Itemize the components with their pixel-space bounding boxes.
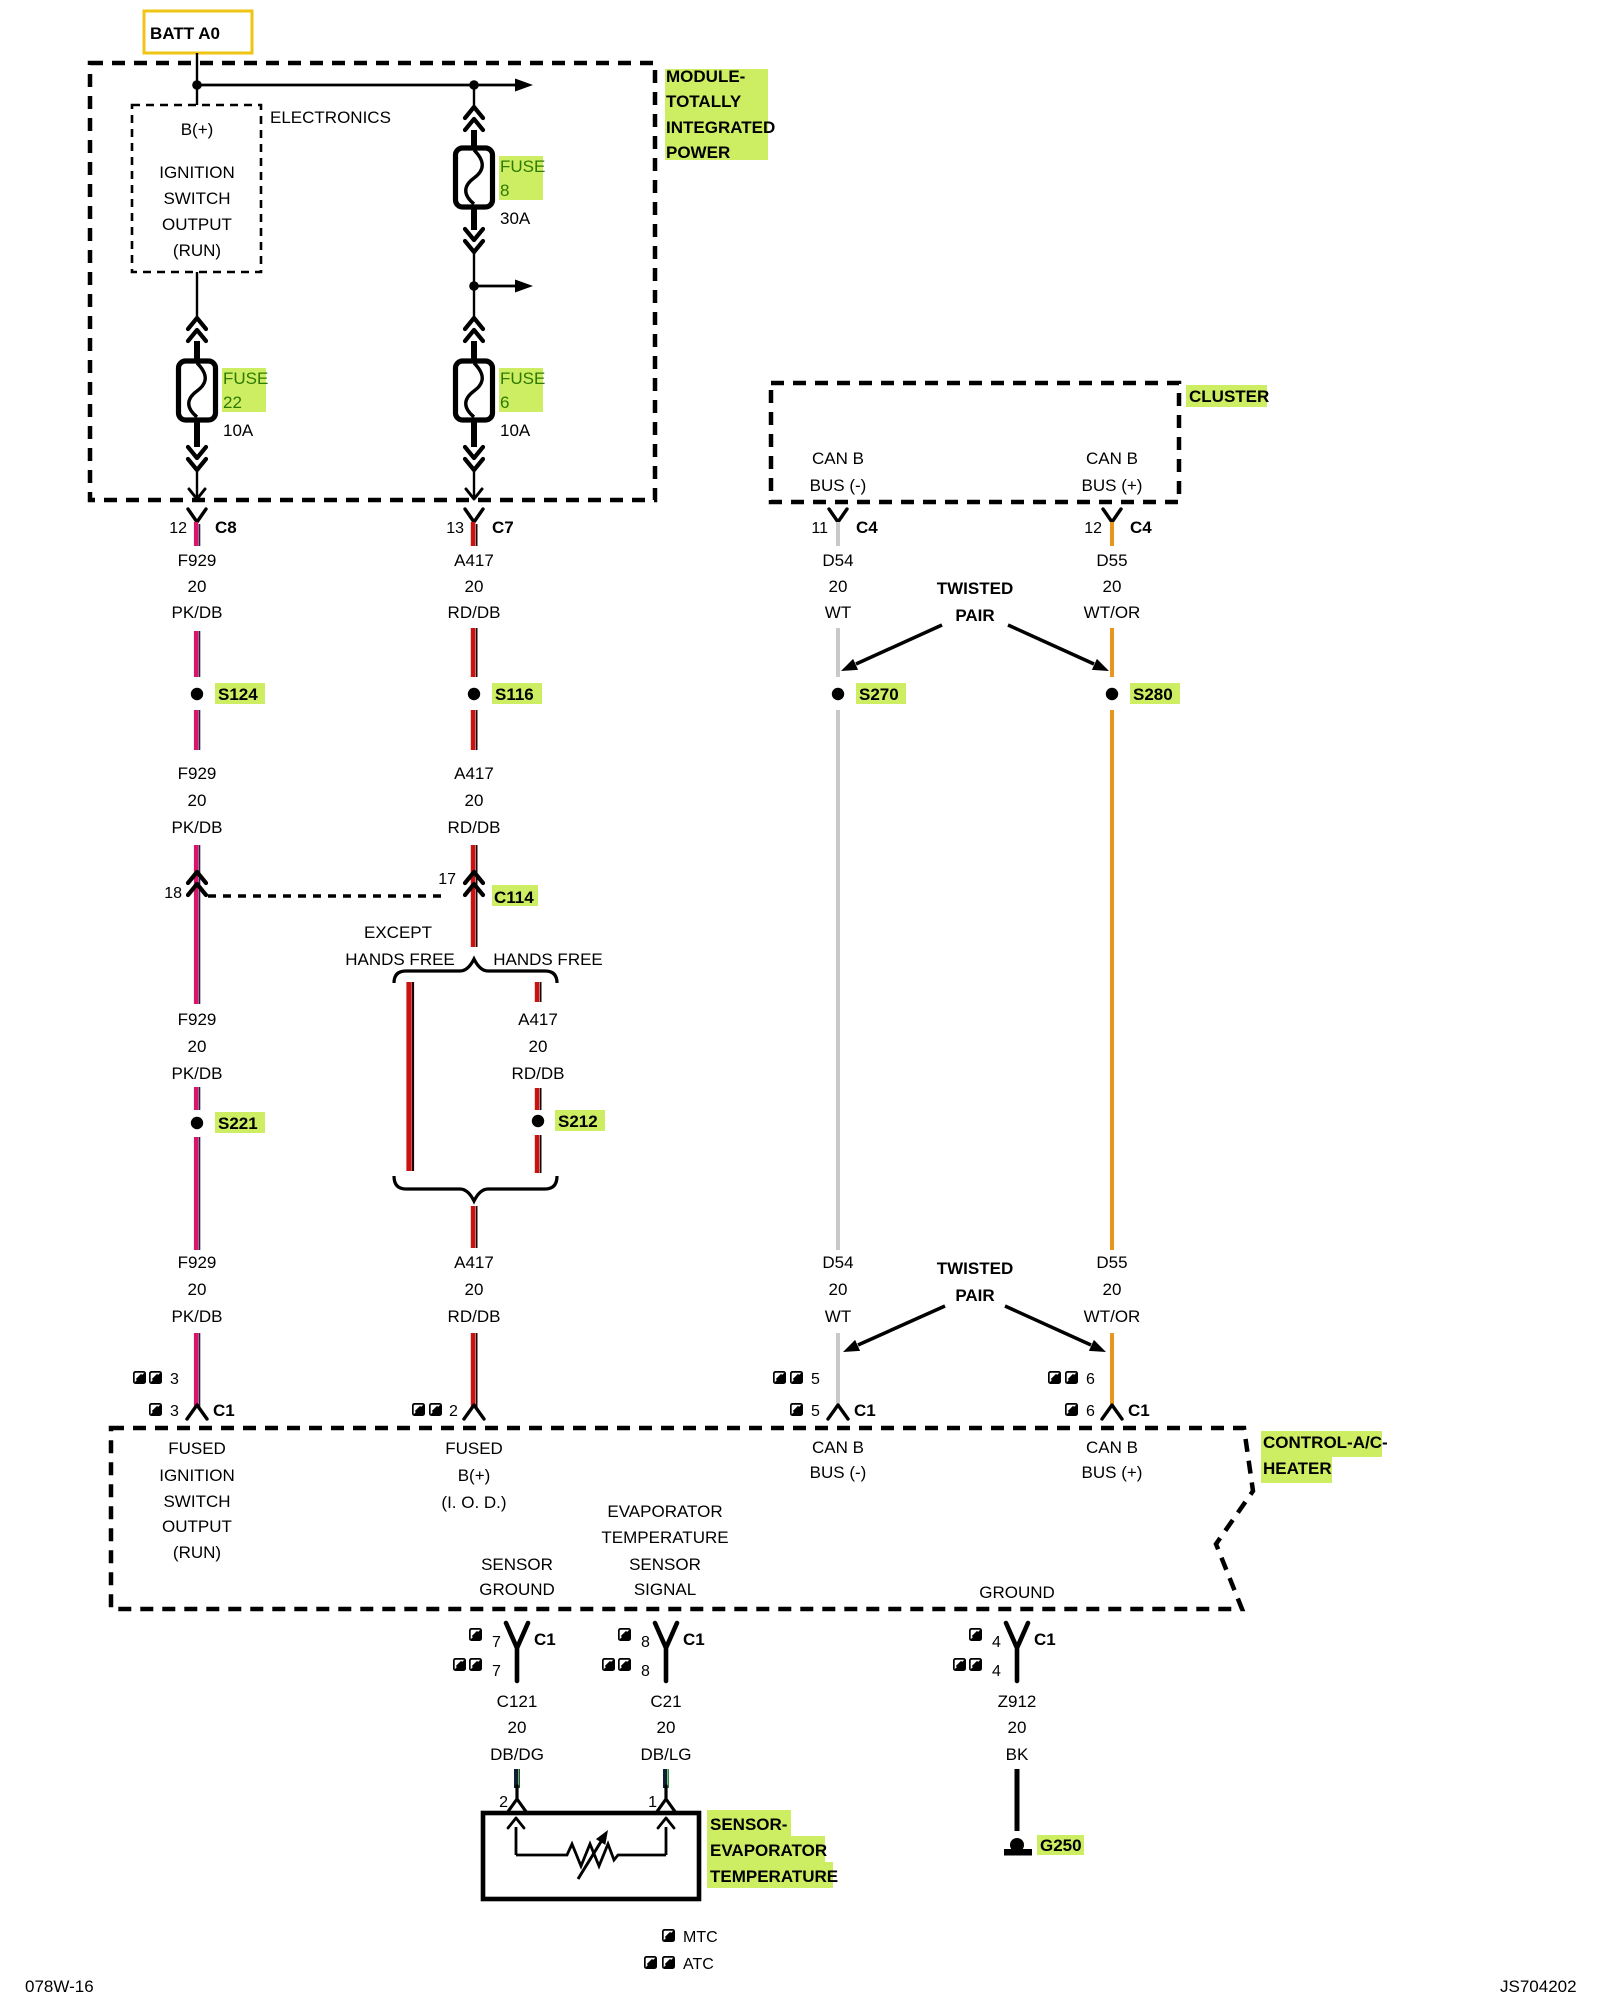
wire RD/DB to C1: [473, 1333, 477, 1407]
svg-text:4: 4: [992, 1634, 1001, 1651]
svg-text:6: 6: [500, 393, 509, 412]
svg-text:PK/DB: PK/DB: [171, 603, 222, 622]
connector C1 pin 2: [412, 1403, 425, 1416]
svg-text:INTEGRATED: INTEGRATED: [666, 118, 775, 137]
svg-text:CLUSTER: CLUSTER: [1189, 387, 1269, 406]
svg-text:DB/LG: DB/LG: [640, 1745, 691, 1764]
svg-text:EVAPORATOR: EVAPORATOR: [710, 1841, 827, 1860]
module-totally integrated power dashed box: [90, 63, 655, 500]
node junction above fuse 8: [469, 80, 479, 90]
svg-text:2: 2: [449, 1403, 458, 1420]
cluster dashed box: [771, 383, 1179, 502]
twisted pair arrow right second: [1005, 1306, 1091, 1345]
svg-text:F929: F929: [178, 764, 217, 783]
svg-text:078W-16: 078W-16: [25, 1977, 94, 1996]
svg-text:ELECTRONICS: ELECTRONICS: [270, 108, 391, 127]
svg-text:S116: S116: [495, 685, 534, 704]
svg-text:EXCEPT: EXCEPT: [364, 923, 432, 942]
svg-text:20: 20: [188, 791, 207, 810]
connector C1 pin 7 below control box: [469, 1628, 482, 1641]
svg-text:S270: S270: [859, 685, 899, 704]
svg-text:GROUND: GROUND: [979, 1583, 1055, 1602]
svg-text:S124: S124: [218, 685, 258, 704]
wire WT/OR segment: [1110, 628, 1114, 677]
svg-text:B(+): B(+): [181, 120, 214, 139]
svg-text:DB/DG: DB/DG: [490, 1745, 544, 1764]
svg-text:C7: C7: [492, 518, 514, 537]
wire WT to C1: [836, 1333, 840, 1407]
twisted pair arrow left second: [858, 1306, 945, 1345]
battery feed label box BATT A0: [144, 11, 252, 53]
svg-text:HANDS FREE: HANDS FREE: [345, 950, 455, 969]
wire PK/DB to C1: [196, 1333, 199, 1407]
connector C1 pin 4 below control box: [969, 1628, 982, 1641]
svg-text:CAN B: CAN B: [812, 449, 864, 468]
svg-text:12: 12: [169, 520, 187, 537]
svg-text:C1: C1: [534, 1630, 556, 1649]
wire WT long segment: [836, 710, 840, 1250]
svg-text:7: 7: [492, 1663, 501, 1680]
svg-text:1: 1: [648, 1794, 657, 1811]
svg-text:C121: C121: [497, 1692, 538, 1711]
svg-text:6: 6: [1086, 1403, 1095, 1420]
svg-text:PK/DB: PK/DB: [171, 1064, 222, 1083]
svg-text:18: 18: [164, 885, 182, 902]
svg-text:SIGNAL: SIGNAL: [634, 1580, 696, 1599]
label SENSOR-EVAPORATOR TEMPERATURE: [707, 1810, 791, 1836]
svg-text:3: 3: [170, 1403, 179, 1420]
svg-text:10A: 10A: [223, 421, 254, 440]
svg-text:D55: D55: [1096, 1253, 1127, 1272]
svg-text:PK/DB: PK/DB: [171, 1307, 222, 1326]
svg-text:CAN B: CAN B: [1086, 449, 1138, 468]
svg-text:7: 7: [492, 1634, 501, 1651]
svg-text:A417: A417: [454, 551, 494, 570]
wire WT segment: [836, 628, 840, 677]
svg-text:MTC: MTC: [683, 1929, 718, 1946]
svg-text:FUSE: FUSE: [500, 157, 545, 176]
svg-text:30A: 30A: [500, 209, 531, 228]
svg-text:(RUN): (RUN): [173, 1543, 221, 1562]
svg-text:IGNITION: IGNITION: [159, 163, 235, 182]
svg-text:S221: S221: [218, 1114, 258, 1133]
svg-text:TWISTED: TWISTED: [937, 1259, 1014, 1278]
svg-text:WT/OR: WT/OR: [1084, 1307, 1141, 1326]
svg-text:20: 20: [188, 1037, 207, 1056]
wire DB/LG segment: [665, 1769, 668, 1788]
splice S280: [1106, 688, 1118, 700]
svg-text:20: 20: [465, 791, 484, 810]
svg-text:C1: C1: [1128, 1401, 1150, 1420]
svg-text:C4: C4: [856, 518, 878, 537]
wire PK/DB above C114: [196, 845, 199, 1004]
svg-text:C1: C1: [213, 1401, 235, 1420]
wire WT/OR to C1: [1110, 1333, 1114, 1407]
svg-text:20: 20: [465, 577, 484, 596]
svg-text:(I. O. D.): (I. O. D.): [441, 1493, 506, 1512]
svg-text:10A: 10A: [500, 421, 531, 440]
svg-text:Z912: Z912: [998, 1692, 1037, 1711]
splice S116: [468, 688, 480, 700]
svg-text:(RUN): (RUN): [173, 241, 221, 260]
svg-text:F929: F929: [178, 551, 217, 570]
svg-text:F929: F929: [178, 1253, 217, 1272]
wire DB/DG segment: [516, 1769, 519, 1788]
svg-text:TOTALLY: TOTALLY: [666, 92, 742, 111]
svg-text:RD/DB: RD/DB: [448, 818, 501, 837]
svg-text:20: 20: [1008, 1718, 1027, 1737]
svg-text:20: 20: [829, 577, 848, 596]
svg-text:POWER: POWER: [666, 143, 730, 162]
option legend MTC: [662, 1929, 675, 1942]
svg-text:TWISTED: TWISTED: [937, 579, 1014, 598]
svg-text:TEMPERATURE: TEMPERATURE: [601, 1528, 728, 1547]
wire RD/DB hands-free segment: [537, 1135, 541, 1173]
wire WT/OR stub: [1110, 522, 1114, 546]
svg-text:SENSOR: SENSOR: [481, 1555, 553, 1574]
wire RD/DB segment: [473, 710, 477, 750]
svg-text:2: 2: [499, 1794, 508, 1811]
splice S212: [532, 1115, 544, 1127]
thermistor symbol: [516, 1844, 666, 1866]
svg-text:20: 20: [657, 1718, 676, 1737]
svg-text:C4: C4: [1130, 518, 1152, 537]
wire PK/DB segment: [196, 710, 199, 750]
ground G250: [1010, 1838, 1024, 1852]
svg-text:8: 8: [641, 1663, 650, 1680]
svg-text:FUSE: FUSE: [223, 369, 268, 388]
svg-text:BK: BK: [1006, 1745, 1029, 1764]
svg-text:20: 20: [1103, 577, 1122, 596]
svg-text:TEMPERATURE: TEMPERATURE: [710, 1867, 838, 1886]
splice S221: [191, 1117, 203, 1129]
svg-text:6: 6: [1086, 1371, 1095, 1388]
wire from BATT A0 down: [196, 53, 198, 85]
svg-text:A417: A417: [454, 764, 494, 783]
svg-text:8: 8: [641, 1634, 650, 1651]
svg-text:20: 20: [465, 1280, 484, 1299]
svg-text:BUS (-): BUS (-): [810, 476, 867, 495]
connector C1 pin 8 below control box: [618, 1628, 631, 1641]
svg-text:SENSOR: SENSOR: [629, 1555, 701, 1574]
node junction at top left: [192, 80, 202, 90]
svg-text:MODULE-: MODULE-: [666, 67, 745, 86]
svg-text:3: 3: [170, 1371, 179, 1388]
wire RD/DB below merge: [473, 1206, 477, 1248]
svg-text:A417: A417: [454, 1253, 494, 1272]
svg-text:20: 20: [829, 1280, 848, 1299]
svg-text:4: 4: [992, 1663, 1001, 1680]
svg-text:RD/DB: RD/DB: [448, 603, 501, 622]
svg-text:HEATER: HEATER: [1263, 1459, 1332, 1478]
svg-text:C1: C1: [854, 1401, 876, 1420]
svg-text:B(+): B(+): [458, 1466, 491, 1485]
svg-text:5: 5: [811, 1403, 820, 1420]
svg-text:8: 8: [500, 181, 509, 200]
svg-text:GROUND: GROUND: [479, 1580, 555, 1599]
ignition switch output dashed box: [132, 105, 261, 272]
label CONTROL-A/C-HEATER: [1261, 1431, 1382, 1457]
svg-text:A417: A417: [518, 1010, 558, 1029]
fuse 6: [456, 361, 493, 420]
twisted pair arrow right: [1008, 625, 1094, 664]
svg-text:BUS (+): BUS (+): [1082, 1463, 1143, 1482]
splice S124: [191, 688, 203, 700]
wire from ignition box to fuse 22: [196, 272, 198, 320]
sensor-evaporator temperature box: [483, 1813, 699, 1899]
control-a/c-heater dashed box: [111, 1428, 1253, 1609]
svg-text:20: 20: [188, 577, 207, 596]
wire PK/DB segment: [196, 1137, 199, 1250]
svg-text:ATC: ATC: [683, 1956, 714, 1973]
svg-text:FUSED: FUSED: [445, 1439, 503, 1458]
wire from junction to fuse 8: [473, 85, 475, 109]
svg-text:C21: C21: [650, 1692, 681, 1711]
svg-text:HANDS FREE: HANDS FREE: [493, 950, 603, 969]
svg-text:SWITCH: SWITCH: [163, 189, 230, 208]
svg-text:BUS (+): BUS (+): [1082, 476, 1143, 495]
wire RD/DB hands-free branch segment: [537, 982, 541, 1002]
brace split top: [394, 959, 557, 983]
fuse 8: [456, 148, 493, 207]
wire RD/DB segment: [473, 628, 477, 677]
wire RD/DB hands-free segment: [537, 1088, 541, 1110]
connector C114 dashed tie line: [208, 894, 442, 897]
svg-text:C1: C1: [1034, 1630, 1056, 1649]
node junction below fuse 8: [469, 281, 479, 291]
svg-text:PK/DB: PK/DB: [171, 818, 222, 837]
connector C1 pin 6 options: [1048, 1371, 1061, 1384]
svg-text:OUTPUT: OUTPUT: [162, 1517, 232, 1536]
connector C1 pin 5 options: [773, 1371, 786, 1384]
svg-text:17: 17: [438, 871, 456, 888]
splice S270: [832, 688, 844, 700]
wire WT/OR long segment: [1110, 710, 1114, 1250]
svg-text:FUSED: FUSED: [168, 1439, 226, 1458]
svg-text:WT: WT: [825, 603, 851, 622]
svg-text:SENSOR-: SENSOR-: [710, 1815, 787, 1834]
svg-text:13: 13: [446, 520, 464, 537]
wire branch arrow right: [474, 285, 516, 288]
wire WT stub: [836, 522, 840, 546]
wire RD/DB above C114: [473, 845, 477, 947]
svg-text:SWITCH: SWITCH: [163, 1492, 230, 1511]
svg-text:G250: G250: [1040, 1836, 1082, 1855]
wire PK/DB segment: [196, 1087, 199, 1110]
svg-text:FUSE: FUSE: [500, 369, 545, 388]
svg-text:C1: C1: [683, 1630, 705, 1649]
svg-text:CONTROL-A/C-: CONTROL-A/C-: [1263, 1433, 1388, 1452]
svg-text:CAN B: CAN B: [1086, 1438, 1138, 1457]
svg-text:C8: C8: [215, 518, 237, 537]
wire junction into B(+) box: [196, 85, 198, 105]
svg-text:S280: S280: [1133, 685, 1173, 704]
wire RD/DB stub below C7: [473, 522, 477, 546]
wire PK/DB segment: [196, 631, 199, 677]
svg-text:PAIR: PAIR: [955, 606, 994, 625]
svg-text:5: 5: [811, 1371, 820, 1388]
svg-text:20: 20: [1103, 1280, 1122, 1299]
svg-text:RD/DB: RD/DB: [448, 1307, 501, 1326]
svg-text:20: 20: [529, 1037, 548, 1056]
svg-text:F929: F929: [178, 1010, 217, 1029]
option legend ATC: [644, 1956, 657, 1969]
svg-text:CAN B: CAN B: [812, 1438, 864, 1457]
svg-text:D54: D54: [822, 1253, 853, 1272]
connector C1 pin 3 options: [133, 1371, 146, 1384]
wire BK segment: [1015, 1769, 1020, 1831]
svg-text:PAIR: PAIR: [955, 1286, 994, 1305]
svg-text:12: 12: [1084, 520, 1102, 537]
svg-text:20: 20: [188, 1280, 207, 1299]
svg-text:D54: D54: [822, 551, 853, 570]
svg-text:IGNITION: IGNITION: [159, 1466, 235, 1485]
svg-text:BUS (-): BUS (-): [810, 1463, 867, 1482]
svg-text:EVAPORATOR: EVAPORATOR: [607, 1502, 722, 1521]
svg-text:20: 20: [508, 1718, 527, 1737]
label CLUSTER: [1186, 385, 1267, 407]
wire RD/DB thick except-hands-free branch: [409, 982, 413, 1171]
svg-text:22: 22: [223, 393, 242, 412]
svg-text:11: 11: [811, 520, 828, 537]
wire to fuse 6: [473, 286, 475, 320]
svg-text:JS704202: JS704202: [1500, 1977, 1577, 1996]
svg-text:BATT A0: BATT A0: [150, 24, 220, 43]
wire horizontal bus with arrow: [197, 84, 516, 87]
wire PK/DB stub below C8: [196, 522, 199, 546]
svg-text:D55: D55: [1096, 551, 1127, 570]
label MODULE-TOTALLY INTEGRATED POWER: [665, 67, 775, 162]
svg-text:C114: C114: [494, 888, 534, 907]
svg-text:S212: S212: [558, 1112, 598, 1131]
twisted pair arrow left: [856, 625, 942, 664]
brace merge bottom: [394, 1176, 557, 1201]
svg-text:WT/OR: WT/OR: [1084, 603, 1141, 622]
fuse 22: [179, 361, 216, 420]
svg-text:WT: WT: [825, 1307, 851, 1326]
svg-text:OUTPUT: OUTPUT: [162, 215, 232, 234]
svg-text:RD/DB: RD/DB: [512, 1064, 565, 1083]
